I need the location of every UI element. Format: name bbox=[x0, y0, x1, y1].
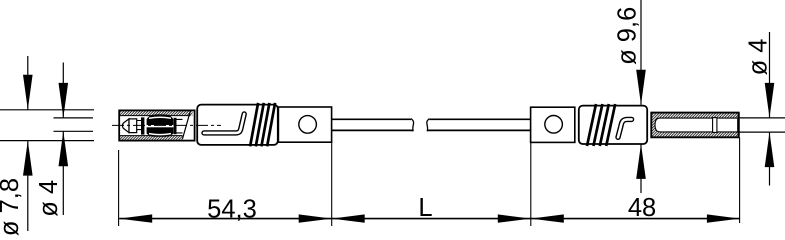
left plug sleeve outer bbox=[119, 110, 194, 140]
sleeve right edge bbox=[738, 113, 740, 138]
label 48 bbox=[628, 194, 656, 222]
arrow 54,3 right bbox=[299, 214, 332, 222]
cable right segment bbox=[427, 119, 530, 130]
label ø 7,8 bbox=[0, 178, 24, 236]
svg-text:ø 4: ø 4 bbox=[745, 39, 773, 76]
right body r slot bbox=[618, 119, 632, 137]
extension lines ø7,8 left bbox=[0, 110, 94, 141]
left body J slot bbox=[204, 114, 244, 133]
left transverse socket hole bbox=[299, 116, 317, 134]
label ø 4 left bbox=[35, 180, 63, 217]
left sleeve bottom hatch band bbox=[120, 136, 183, 141]
cutaway diagonal bbox=[183, 111, 191, 139]
left rear block bbox=[278, 107, 331, 142]
contact collar bar right bbox=[174, 118, 177, 134]
left plug body bbox=[197, 105, 278, 145]
right rear block bbox=[531, 107, 575, 142]
arrow 48 left bbox=[531, 214, 564, 222]
label 54,3 bbox=[207, 195, 257, 223]
left sleeve top hatch band bbox=[120, 111, 193, 116]
svg-text:ø 7,8: ø 7,8 bbox=[0, 178, 24, 236]
inner contact tube end bbox=[713, 118, 717, 133]
svg-text:ø 4: ø 4 bbox=[35, 180, 63, 217]
centerline bbox=[112, 124, 221, 126]
arrow 54,3 left bbox=[119, 214, 152, 222]
right body grip ribs bbox=[587, 104, 615, 146]
label L bbox=[418, 194, 432, 222]
arrow L left bbox=[332, 214, 365, 222]
sleeve bore bbox=[655, 118, 738, 132]
dimension ø4 line left bbox=[59, 63, 69, 216]
plug nose tip bbox=[122, 119, 136, 133]
contact collar bar left bbox=[141, 117, 144, 134]
cable left segment bbox=[332, 119, 414, 130]
bottom extension lines bbox=[119, 137, 740, 226]
spring contact basket bbox=[146, 114, 174, 136]
svg-text:L: L bbox=[418, 194, 432, 222]
left body grip ribs bbox=[250, 103, 275, 146]
arrow 48 right bbox=[707, 214, 740, 222]
svg-text:ø 9,6: ø 9,6 bbox=[614, 7, 642, 65]
dimension ø9,6 line bbox=[636, 0, 646, 193]
right insulating sleeve outer bbox=[651, 113, 738, 138]
arrow L right bbox=[498, 214, 531, 222]
cable left break edge bbox=[411, 119, 414, 132]
dimension ø7,8 line bbox=[23, 56, 33, 231]
right plug body bbox=[579, 106, 647, 144]
bottom dimension line bbox=[119, 218, 740, 220]
extension lines ø4 left bbox=[54, 118, 94, 131]
dimension ø4 line right bbox=[765, 32, 775, 186]
extension lines ø4 right bbox=[739, 118, 785, 132]
svg-text:48: 48 bbox=[628, 194, 656, 222]
pin shaft lines bbox=[137, 119, 183, 132]
svg-text:54,3: 54,3 bbox=[207, 195, 257, 223]
cable right break edge bbox=[427, 119, 430, 132]
right transverse socket hole bbox=[545, 116, 563, 134]
label ø 4 right bbox=[745, 39, 773, 76]
label ø 9,6 bbox=[614, 7, 642, 65]
